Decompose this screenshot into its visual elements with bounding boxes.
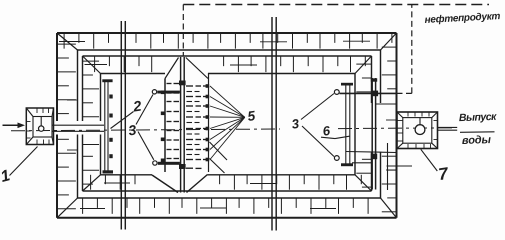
outer wall corner miters xyxy=(57,33,78,50)
inlet pipe through wall xyxy=(52,124,104,126)
right frame lower braces xyxy=(210,142,228,160)
left slotted wall dark header bars xyxy=(157,91,180,94)
outlet weir wall xyxy=(371,78,373,190)
oil product dashed discharge line xyxy=(397,92,412,94)
partition top miter braces xyxy=(165,58,179,79)
svg-text:1: 1 xyxy=(0,167,12,186)
slotted distribution column 2 - body xyxy=(104,82,106,171)
inlet box 1 - inner wall xyxy=(33,117,52,138)
outlet box circle fitting xyxy=(415,125,425,135)
right slotted wall intermediate slots xyxy=(187,91,193,93)
inlet box circle fitting xyxy=(39,126,44,131)
inlet box 1 - outer wall xyxy=(26,108,53,145)
label 1 with leader xyxy=(10,147,38,176)
left slotted wall nozzle blocks xyxy=(161,91,165,95)
masonry joint ticks - bottom inner band xyxy=(90,175,92,190)
water outlet pipe stub xyxy=(438,126,458,128)
leader fan to label 5 xyxy=(210,86,245,117)
left slotted wall flushing pipe circles 3 xyxy=(152,90,156,94)
slotted distribution column 2 - side nozzles xyxy=(109,95,112,99)
slotted distribution column 2 - bottom cap xyxy=(103,170,114,173)
svg-text:7: 7 xyxy=(437,164,451,184)
slotted distribution column 2 - top cap xyxy=(102,79,112,82)
oil retaining baffle 6 - bottom cap xyxy=(341,163,353,166)
inlet box corner miters xyxy=(26,108,33,117)
oil pipe tee fitting xyxy=(371,91,378,97)
svg-text:5: 5 xyxy=(247,108,257,124)
label 7 with leader xyxy=(421,149,438,171)
label 2 with leader xyxy=(111,112,134,129)
svg-text:3: 3 xyxy=(291,116,301,132)
outlet channel through wall xyxy=(376,103,397,105)
outlet weir mid pad xyxy=(371,154,377,160)
svg-text:Выпуск: Выпуск xyxy=(459,111,498,124)
outlet weir top pad xyxy=(371,78,377,81)
masonry joint ticks - top outer band xyxy=(63,33,65,49)
svg-text:воды: воды xyxy=(462,134,492,147)
outlet box 7 - inner wall xyxy=(403,118,432,144)
expansion joint line pair left xyxy=(120,21,122,230)
right slotted wall nozzle blocks xyxy=(206,84,210,88)
masonry joint ticks - left inner wall xyxy=(83,60,100,62)
right slotted wall bottom rail xyxy=(186,167,193,169)
centre partition top pad xyxy=(179,81,186,86)
label 6 with underline leader xyxy=(321,137,335,138)
right slotted wall frame xyxy=(208,73,210,172)
masonry joint ticks - left outer wall xyxy=(57,43,76,45)
outlet box corner miters xyxy=(397,112,403,118)
centre partition bottom pad xyxy=(179,164,186,169)
expansion joint line pair right xyxy=(271,17,273,231)
masonry bed-joint segments xyxy=(59,41,85,43)
svg-text:6: 6 xyxy=(322,123,332,139)
right slotted wall slots xyxy=(186,85,193,87)
inlet flow arrow xyxy=(3,124,20,126)
masonry joint ticks - right outer wall xyxy=(382,46,397,48)
centre partition wall xyxy=(180,57,182,193)
left slotted wall frame xyxy=(164,79,166,173)
outlet box masonry ticks xyxy=(407,112,409,117)
masonry joint ticks - top inner band xyxy=(94,56,96,72)
flushing pipe circles right (item 3) xyxy=(334,90,339,95)
tank outer wall - inner edge xyxy=(78,49,381,51)
label 3 left with leaders xyxy=(136,95,153,125)
masonry joint ticks - bottom outer band xyxy=(82,198,84,214)
partition bottom miter braces xyxy=(152,175,178,193)
tank outer wall - outer edge xyxy=(57,32,397,34)
outlet box 7 - outer wall xyxy=(397,112,438,149)
masonry joint ticks - right inner wall xyxy=(356,63,371,65)
label 3 right with leaders xyxy=(301,94,334,120)
inner wall corner miters xyxy=(83,56,101,74)
oil retaining baffle 6 - top cap xyxy=(341,83,353,86)
tank inner wall - inner edge (gaps at centre partition) xyxy=(101,73,166,75)
oil riser dashed line at partition xyxy=(182,5,184,57)
svg-text:2: 2 xyxy=(131,99,142,116)
left slotted wall slots xyxy=(167,83,172,85)
inlet box masonry ticks xyxy=(36,108,38,113)
oil collection pipe xyxy=(340,92,397,94)
horizontal dash-dot axis centreline xyxy=(11,129,280,131)
svg-text:нефтепродукт: нефтепродукт xyxy=(424,10,500,26)
oil retaining baffle 6 - body xyxy=(345,86,347,164)
tank inner wall - outer edge xyxy=(83,55,372,57)
wall lines below outlet box xyxy=(387,143,389,190)
